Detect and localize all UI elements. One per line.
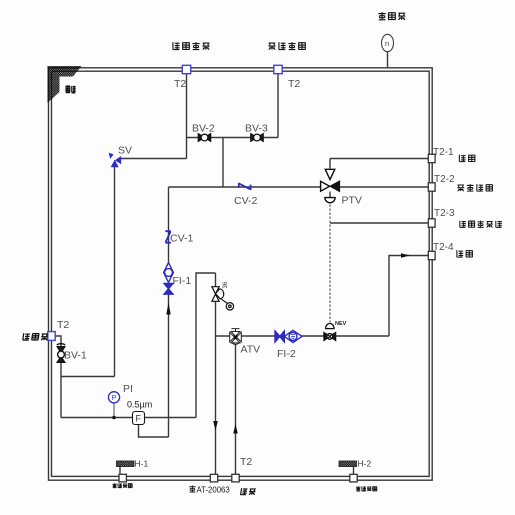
wire H-1 stub (119, 467, 121, 475)
svg-text:BV-2: BV-2 (192, 123, 215, 135)
svg-text:T2-3: T2-3 (434, 208, 455, 219)
wire LP header drop (277, 74, 279, 138)
wire sample riser (168, 187, 170, 437)
check valve CV-1 (165, 231, 171, 243)
svg-text:T2: T2 (174, 78, 186, 90)
svg-text:T2-2: T2-2 (434, 174, 455, 185)
node AT-20063 square (210, 474, 217, 482)
heater H-1 (117, 461, 135, 467)
arrow up standard gas (233, 424, 238, 434)
svg-text:PTV: PTV (342, 195, 362, 207)
svg-text:0.5µm: 0.5µm (127, 400, 152, 410)
border frame outer (49, 68, 433, 480)
wire T2-1 line (330, 158, 428, 160)
wire PTV actuator stem (329, 192, 331, 198)
wire riser x196 (196, 273, 216, 418)
node flare header square (182, 65, 190, 73)
svg-text:FI-2: FI-2 (277, 348, 296, 360)
node sample inlet square (48, 332, 55, 341)
node T2-3 square (428, 219, 435, 227)
svg-text:AT-20063: AT-20063 (197, 486, 230, 495)
wire T2-3 line (330, 222, 428, 224)
wire filter jog (139, 425, 169, 438)
valve ATV (230, 329, 242, 345)
valve NEV (324, 323, 336, 340)
wire SV outlet (120, 158, 187, 160)
svg-text:CV-2: CV-2 (234, 195, 258, 207)
valve BV-1 (57, 344, 65, 363)
wire PTV to NEV signal dashed (329, 205, 331, 323)
heater H-2 (339, 461, 357, 467)
flow indicator FI-1 (164, 263, 174, 295)
filter F (133, 412, 145, 425)
svg-text:H-1: H-1 (135, 459, 149, 469)
label 蒸汽入口 (113, 483, 133, 487)
flow indicator FI-2 (275, 330, 302, 342)
wire to filter F (61, 417, 133, 419)
regulator PCV (212, 287, 234, 310)
wire filter F outlet (144, 417, 196, 419)
label 温度表 (378, 12, 405, 20)
gauge TI (temperature) (382, 34, 394, 51)
wire T2-2 line (340, 186, 429, 188)
wire SV drop (114, 167, 116, 377)
arrow down to AT-20063 (213, 421, 218, 431)
svg-text:T2-1: T2-1 (433, 147, 454, 158)
svg-text:NEV: NEV (335, 321, 347, 327)
wire PTV top link (329, 159, 331, 169)
svg-text:H-2: H-2 (358, 459, 372, 469)
svg-text:P: P (112, 395, 117, 402)
node LP header square (274, 65, 282, 73)
wire standard gas to ATV (235, 345, 237, 477)
label 色谱 T2-4 (457, 250, 473, 257)
svg-text:PI: PI (123, 383, 133, 395)
node T2-4 square (428, 251, 435, 259)
label 色谱 T2-1 (459, 155, 475, 162)
label 标气 (241, 488, 257, 495)
label 蒸汽出口 (356, 486, 377, 491)
svg-text:T2: T2 (288, 78, 300, 90)
border frame inner (52, 71, 430, 476)
wire from sample square (55, 336, 61, 347)
label 低压总管 (268, 42, 305, 49)
insulation hatch corner (48, 66, 82, 103)
label 放空总管 (457, 184, 492, 191)
svg-text:T2: T2 (240, 456, 252, 468)
wire PCV outlet down (215, 302, 217, 477)
node T2-2 square (428, 183, 435, 191)
label 至AT-20063 (189, 486, 195, 492)
arrow to T2-4 (401, 253, 410, 258)
svg-text:SV: SV (118, 145, 132, 157)
label 保温 (66, 86, 76, 93)
svg-text:T2-4: T2-4 (433, 242, 454, 253)
svg-text:FI-1: FI-1 (173, 275, 192, 287)
valve SV (109, 153, 122, 168)
junction dot (112, 416, 116, 420)
arrow up sample riser (166, 303, 170, 315)
wire ATV line (216, 335, 390, 337)
svg-text:T2: T2 (57, 319, 69, 331)
node steam inlet square (119, 474, 126, 482)
wire PCV feed (215, 273, 217, 287)
wire branch BV to CV-2 line (222, 138, 224, 188)
svg-text:n: n (385, 39, 389, 48)
wire H-2 stub (353, 467, 355, 475)
check valve CV-2 (239, 183, 251, 190)
node standard gas square (232, 474, 239, 482)
node T2-1 square (428, 154, 435, 162)
wire branch to SV drop (61, 376, 115, 378)
label 火炬总管 (173, 42, 210, 49)
svg-text:F: F (136, 414, 142, 424)
wire riser x389 (389, 256, 428, 337)
gauge PI (108, 392, 119, 403)
valve BV-2 (198, 134, 210, 142)
wire BV header (187, 137, 279, 139)
svg-text:BV-3: BV-3 (245, 123, 268, 135)
wire TI stem (387, 52, 389, 68)
svg-text:CV-1: CV-1 (170, 233, 194, 245)
node steam outlet square (350, 474, 357, 482)
valve PTV (321, 169, 340, 202)
svg-text:ATV: ATV (241, 344, 261, 356)
wire CV-2 line (169, 186, 321, 188)
wire below BV-1 (60, 363, 62, 418)
label 样品气 (23, 333, 49, 340)
valve BV-3 (251, 134, 263, 142)
svg-text:BV-1: BV-1 (64, 350, 87, 362)
wire flare header drop (186, 74, 188, 159)
label 色谱驱动气 (460, 221, 502, 228)
svg-text:36: 36 (223, 281, 229, 288)
